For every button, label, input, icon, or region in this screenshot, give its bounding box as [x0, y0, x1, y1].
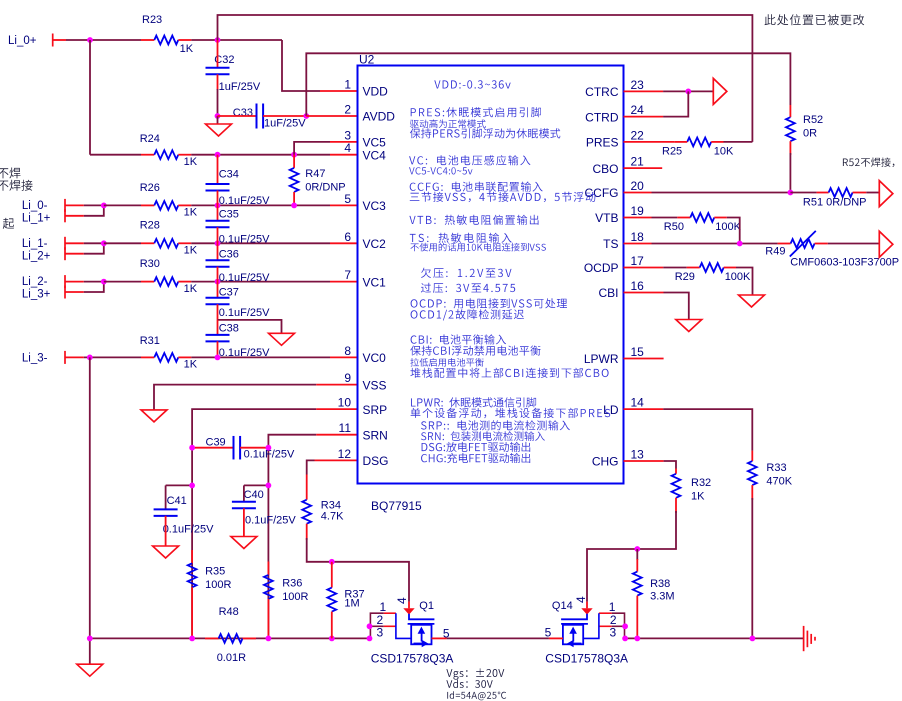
pin 19 VTB stub: [624, 217, 652, 219]
junction TS/R50: [737, 241, 743, 247]
capacitor C32 bottom lead lower: [217, 89, 219, 116]
resistor R50: [690, 213, 714, 222]
svg-text:Q14: Q14: [552, 600, 573, 612]
junction Li_1-/Li_2+: [101, 240, 107, 246]
svg-text:CBO: CBO: [592, 162, 618, 176]
svg-text:15: 15: [631, 345, 645, 359]
resistor R50 right lead: [714, 217, 727, 219]
svg-text:BQ77915: BQ77915: [371, 499, 422, 513]
pin 17 OCDP stub: [624, 267, 664, 269]
resistor R26 right lead: [178, 204, 191, 206]
svg-text:1uF/25V: 1uF/25V: [264, 118, 306, 130]
wire R49 to arrow: [828, 243, 880, 245]
svg-text:23: 23: [631, 78, 645, 92]
svg-text:CMF0603-103F3700P: CMF0603-103F3700P: [790, 257, 899, 269]
wire bottom rail right: [625, 637, 804, 639]
resistor R31: [154, 353, 178, 362]
transistor Q1 drain arrow pin 4: [403, 608, 414, 614]
svg-text:3: 3: [377, 626, 384, 640]
svg-text:2: 2: [344, 103, 351, 117]
pin 18 TS stub: [624, 243, 652, 245]
junction Li_0-/Li_1+: [101, 203, 107, 209]
arrow CCFG output: [879, 181, 893, 207]
resistor R36: [264, 575, 273, 599]
svg-text:R49: R49: [765, 246, 785, 258]
note Q Id rating: [447, 691, 506, 700]
svg-text:19: 19: [631, 204, 645, 218]
junction Li_2-/Li_3+: [101, 279, 107, 285]
junction C39 left: [189, 445, 195, 451]
resistor R48 right lead: [243, 637, 256, 639]
terminal Li_0- lead: [65, 204, 84, 206]
wire R38 top link: [636, 549, 638, 560]
svg-text:0.1uF/25V: 0.1uF/25V: [244, 449, 295, 461]
svg-text:Li_1+: Li_1+: [22, 212, 51, 224]
pin 20 CCFG stub: [624, 192, 652, 194]
IC text CCFG line2: [410, 192, 596, 202]
wire CCFG node to R51: [790, 192, 816, 194]
IC text CBI line1: [411, 334, 506, 344]
svg-text:U2: U2: [359, 53, 375, 67]
junction C39 right: [266, 445, 272, 451]
svg-text:R31: R31: [140, 335, 160, 347]
resistor R24 left lead: [141, 154, 154, 156]
pin 4 VC4 stub: [330, 154, 358, 156]
svg-text:6: 6: [344, 230, 351, 244]
svg-text:100R: 100R: [205, 579, 231, 591]
ground under C41: [153, 546, 179, 558]
wire Li_0+ rail to R23: [66, 39, 141, 41]
wire R31 to pin VC0: [191, 356, 330, 358]
svg-text:13: 13: [631, 448, 645, 462]
resistor R48: [219, 634, 243, 643]
svg-text:5: 5: [443, 627, 450, 641]
svg-text:VC0: VC0: [363, 351, 387, 365]
resistor R28 left lead: [141, 242, 154, 244]
pin 11 SRN stub: [316, 434, 357, 436]
wire VDD node to pin VDD: [282, 40, 320, 91]
capacitor C41: [154, 509, 178, 516]
IC text PRES line2: [410, 119, 486, 128]
wire CBI to ground: [664, 293, 689, 320]
wire C33 ground drop: [217, 116, 219, 124]
svg-text:C34: C34: [219, 169, 239, 181]
pin 8 VC0 stub: [330, 356, 358, 358]
transistor Q1 gate bracket: [409, 614, 434, 620]
svg-text:SRP: SRP: [363, 403, 388, 417]
capacitor C36: [206, 260, 230, 267]
junction Q1 pin3 rail: [367, 636, 373, 642]
junction VDD node at C32: [215, 37, 221, 43]
wire R33 to bottom rail: [751, 498, 753, 638]
svg-text:Li_1-: Li_1-: [22, 238, 48, 250]
wire SRN from pin 11: [268, 435, 316, 639]
svg-text:1K: 1K: [184, 359, 198, 371]
resistor R47: [290, 168, 299, 192]
svg-text:10: 10: [338, 396, 352, 410]
capacitor C40: [232, 502, 256, 509]
svg-text:11: 11: [339, 421, 352, 435]
capacitor C34 bottom lead: [217, 191, 219, 206]
IC text OCDP line2: [411, 309, 524, 320]
svg-text:DSG: DSG: [363, 454, 389, 468]
resistor R51 right lead: [853, 192, 867, 194]
terminal Li_3+ tick: [64, 286, 66, 299]
resistor R33: [748, 461, 757, 485]
svg-text:CSD17578Q3A: CSD17578Q3A: [545, 652, 628, 666]
transistor Q14 drain red lead: [586, 602, 588, 609]
capacitor C36 top lead: [217, 243, 219, 260]
svg-text:1K: 1K: [180, 43, 194, 55]
resistor R49 thermistor slash: [790, 231, 816, 257]
junction CTRC/CTRD: [685, 89, 691, 95]
resistor R30 right lead: [178, 281, 191, 283]
wire CHG to R32: [664, 461, 676, 469]
svg-text:C36: C36: [219, 248, 239, 260]
svg-text:12: 12: [338, 447, 352, 461]
svg-text:5: 5: [344, 192, 351, 206]
wire DSG from pin 12: [307, 460, 315, 474]
wire VC5 branch: [294, 142, 330, 155]
resistor R52: [786, 117, 795, 141]
wire R52 to CCFG node: [789, 153, 791, 193]
capacitor C35: [206, 221, 230, 228]
svg-text:CSD17578Q3A: CSD17578Q3A: [371, 652, 454, 666]
resistor R34 bottom lead: [306, 524, 308, 540]
svg-text:1K: 1K: [184, 283, 198, 295]
junction R47 top node: [291, 152, 297, 158]
terminal Li_3- tick: [64, 351, 66, 364]
svg-text:R25: R25: [662, 146, 682, 158]
wire SRP from pin 10: [192, 409, 316, 638]
wire C37/C38 node to ground: [218, 320, 282, 333]
resistor R34: [302, 500, 311, 524]
svg-text:CTRC: CTRC: [585, 85, 619, 99]
wire VSS from pin 9: [154, 385, 316, 410]
ground bottom left: [77, 664, 103, 676]
junction Q14 pin3 rail: [622, 636, 628, 642]
capacitor C39 right lead: [240, 447, 268, 449]
transistor Q14 source arrow: [567, 640, 582, 647]
resistor R32 top lead: [675, 469, 677, 474]
svg-text:VC1: VC1: [363, 275, 387, 289]
IC text SRN line: [421, 431, 545, 441]
resistor R24: [154, 150, 178, 159]
svg-text:0.1uF/25V: 0.1uF/25V: [219, 272, 270, 284]
svg-text:0.01R: 0.01R: [217, 652, 246, 664]
svg-text:C40: C40: [244, 489, 264, 501]
wire Li_3- to junction: [84, 356, 141, 358]
svg-text:VC3: VC3: [363, 199, 387, 213]
svg-text:10K: 10K: [714, 146, 734, 158]
wire bottom rail middle: [447, 637, 549, 639]
svg-text:VC4: VC4: [363, 148, 387, 162]
resistor R28: [154, 239, 178, 248]
svg-text:CTRD: CTRD: [585, 110, 619, 124]
junction rail R37: [329, 636, 335, 642]
transistor Q1 pins 1-3 box: [370, 613, 411, 638]
pin 9 VSS stub: [316, 384, 357, 386]
wire LD to R33: [663, 409, 752, 451]
resistor R36 top lead: [267, 562, 269, 575]
ground under C33: [206, 124, 232, 136]
transistor Q14: [0, 0, 1, 1]
wire CTRD riser: [663, 91, 688, 116]
resistor R48 left lead: [205, 637, 219, 639]
junction cap node on R28 row: [215, 240, 221, 246]
ground after R29: [739, 295, 765, 307]
IC text CBI line4: [410, 368, 608, 378]
terminal Li_2+ tick: [64, 247, 66, 260]
svg-text:1: 1: [609, 600, 616, 614]
note Q Vds rating: [446, 680, 492, 688]
svg-text:21: 21: [631, 155, 645, 169]
wire VDD node up to top rail: [218, 15, 753, 142]
wire R51 to arrow: [866, 192, 879, 194]
IC text SRP line: [421, 420, 570, 430]
transistor Q14 drain arrow pin 4: [581, 608, 592, 614]
svg-text:100R: 100R: [282, 591, 308, 603]
IC text DSG line: [422, 442, 531, 452]
junction C41 link: [189, 483, 195, 489]
pin 16 CBI stub: [624, 292, 664, 294]
wire R28 to IC pin: [191, 242, 330, 244]
svg-text:C35: C35: [219, 208, 239, 220]
junction Q1 pin2 rail: [367, 623, 373, 629]
svg-text:VC2: VC2: [363, 237, 387, 251]
wire R25 to top rail: [724, 141, 753, 143]
wire PRES to R25: [652, 141, 675, 143]
junction R37 top: [329, 559, 335, 565]
transistor Q14 body box: [563, 625, 583, 645]
terminal Li_2- tick: [64, 275, 66, 288]
svg-text:R50: R50: [664, 221, 684, 233]
terminal Li_2+ lead: [65, 253, 84, 255]
resistor R25: [687, 138, 711, 147]
resistor R38 bottom lead: [636, 596, 638, 639]
svg-text:SRN: SRN: [363, 428, 388, 442]
ground after CBI: [676, 320, 702, 332]
svg-text:R52: R52: [803, 114, 823, 126]
junction rail R36: [266, 636, 272, 642]
resistor R33 top lead: [751, 451, 753, 462]
capacitor C39: [234, 436, 241, 460]
resistor R49 left lead: [778, 243, 791, 245]
svg-text:CHG: CHG: [592, 455, 619, 469]
svg-text:1: 1: [380, 600, 387, 614]
wire R23 to VDD node: [191, 39, 282, 41]
svg-text:0.1uF/25V: 0.1uF/25V: [245, 515, 296, 527]
transistor Q14 gate bracket: [561, 614, 587, 620]
junction C38 bottom node: [215, 355, 221, 361]
junction cap node on R30 row: [215, 279, 221, 285]
svg-text:R47: R47: [305, 168, 325, 180]
svg-text:C41: C41: [167, 495, 187, 507]
resistor R35 top lead: [191, 550, 193, 563]
capacitor C34 top lead: [217, 155, 219, 184]
wire OCDP to R29: [663, 267, 687, 269]
svg-text:3.3M: 3.3M: [650, 591, 674, 603]
note left bu-han-jie: [0, 180, 33, 191]
wire R24 row left: [90, 154, 141, 156]
terminal Li_0- tick: [64, 199, 66, 212]
wire CTRC to arrow: [663, 90, 713, 92]
svg-text:Q1: Q1: [419, 600, 434, 612]
terminal Li_0+ tick: [52, 34, 54, 47]
capacitor C37 bottom lead: [217, 304, 219, 320]
resistor R29 left lead: [687, 267, 700, 269]
IC text CCFG line1: [410, 182, 543, 192]
svg-text:OCDP: OCDP: [584, 261, 619, 275]
IC text CBI line3: [410, 358, 483, 367]
svg-text:0.1uF/25V: 0.1uF/25V: [219, 307, 270, 319]
svg-text:1K: 1K: [184, 207, 198, 219]
wire VTB to R50: [652, 217, 678, 219]
resistor R35 bottom lead: [191, 587, 193, 638]
resistor R47 top lead: [293, 155, 295, 168]
IC text TS line1: [410, 233, 512, 243]
wire Li_1+ riser: [84, 205, 104, 215]
resistor R30: [154, 277, 178, 286]
svg-text:Li_3+: Li_3+: [22, 289, 51, 301]
svg-text:470K: 470K: [766, 476, 792, 488]
IC text VC line1: [409, 155, 530, 165]
svg-text:0R: 0R: [803, 128, 817, 140]
resistor R33 bottom lead: [751, 485, 753, 500]
transistor Q1: [0, 0, 1, 1]
svg-text:R30: R30: [140, 258, 160, 270]
capacitor C33 left lead: [218, 115, 257, 117]
terminal Li_1+ lead: [65, 215, 84, 217]
wire Li_3+ riser: [84, 282, 104, 292]
capacitor C39 left lead: [192, 447, 233, 449]
resistor R50 left lead: [677, 217, 690, 219]
IC text CHG line: [421, 453, 530, 463]
svg-text:4: 4: [395, 597, 409, 604]
svg-text:16: 16: [631, 279, 645, 293]
wire bottom rail left: [90, 637, 371, 639]
terminal Li_3+ lead: [65, 291, 84, 293]
junction AVDD node: [303, 113, 309, 119]
resistor R29 right lead: [724, 267, 736, 269]
svg-text:1: 1: [344, 78, 351, 92]
svg-text:22: 22: [631, 128, 645, 142]
wire Li_2- to junction: [84, 281, 104, 283]
svg-text:100K: 100K: [715, 221, 741, 233]
power ground earth symbol right: [804, 626, 815, 651]
wire R24 to VC4 pin: [191, 154, 330, 156]
capacitor C33: [257, 104, 264, 129]
arrow CTRC output: [713, 78, 727, 104]
resistor R34 top lead: [306, 475, 308, 500]
resistor R49 thermistor: [791, 239, 815, 248]
note top right: [765, 14, 865, 25]
terminal Li_0+ lead: [53, 39, 66, 41]
pin 22 PRES stub: [624, 141, 652, 143]
svg-text:VSS: VSS: [363, 378, 387, 392]
pin 3 VC5 stub: [330, 141, 358, 143]
svg-text:1uF/25V: 1uF/25V: [219, 81, 261, 93]
terminal Li_1+ tick: [64, 209, 66, 222]
svg-text:VDD: VDD: [363, 85, 389, 99]
pin 14 LD stub: [624, 408, 664, 410]
transistor Q1 source arrow: [414, 640, 429, 647]
svg-text:3: 3: [610, 626, 617, 640]
svg-text:0.1uF/25V: 0.1uF/25V: [219, 234, 270, 246]
svg-text:4: 4: [344, 141, 351, 155]
IC text VC line2: [409, 167, 472, 174]
svg-text:Li_2+: Li_2+: [22, 250, 51, 262]
capacitor C36 bottom lead: [217, 267, 219, 282]
capacitor C37 top lead: [217, 282, 219, 298]
pin 2 AVDD stub: [306, 115, 357, 117]
ground at C37/C38 node: [269, 333, 295, 345]
wire Li_1- to junction: [84, 242, 104, 244]
svg-text:9: 9: [344, 371, 351, 385]
wire R29 to ground: [736, 268, 753, 296]
pin 12 DSG stub: [315, 459, 358, 461]
wire R30 to IC pin: [191, 281, 330, 283]
IC text PRES line3: [410, 128, 560, 138]
note left bu-han: [0, 168, 20, 179]
wire R26 to IC pin: [191, 204, 330, 206]
IC text VDD rating: [434, 80, 510, 88]
junction rail R35: [189, 636, 195, 642]
capacitor C40 bottom lead: [243, 508, 245, 536]
capacitor C37: [206, 298, 230, 305]
svg-text:C38: C38: [219, 323, 239, 335]
ground VSS: [141, 410, 167, 422]
wire Li_2+ riser: [84, 243, 104, 253]
resistor R23: [154, 36, 178, 45]
op-amp U2 BQ77915 IC body: [358, 66, 624, 484]
svg-text:R29: R29: [675, 271, 695, 283]
resistor R52 bottom lead: [789, 141, 791, 155]
capacitor C32 bottom lead: [217, 74, 219, 90]
svg-text:8: 8: [344, 344, 351, 358]
capacitor C35 bottom lead: [217, 227, 219, 243]
svg-text:0.1uF/25V: 0.1uF/25V: [163, 524, 214, 536]
svg-text:1K: 1K: [184, 245, 198, 257]
svg-text:R51 0R/DNP: R51 0R/DNP: [803, 197, 867, 209]
resistor R36 bottom lead: [267, 599, 269, 639]
IC text PRES line1: [411, 107, 541, 117]
resistor R49 right lead: [815, 243, 828, 245]
transistor Q1 body box: [411, 625, 431, 645]
junction C34 top node: [215, 152, 221, 158]
capacitor C38 top lead: [217, 320, 219, 335]
resistor R25 left lead: [674, 141, 687, 143]
pin 6 VC2 stub: [330, 242, 358, 244]
pin 10 SRP stub: [316, 408, 357, 410]
svg-text:R24: R24: [140, 133, 160, 145]
svg-text:0.1uF/25V: 0.1uF/25V: [219, 195, 270, 207]
junction Li_3- node: [87, 355, 93, 361]
wire junction to R26: [104, 204, 141, 206]
resistor R38 top lead: [636, 559, 638, 572]
svg-text:18: 18: [631, 230, 645, 244]
resistor R32 bottom lead: [675, 498, 677, 513]
wire R32 to Q14 gate node: [587, 511, 676, 602]
svg-text:LPWR: LPWR: [584, 352, 619, 366]
wire Li_0+ down to R24 row: [89, 40, 91, 155]
svg-text:CBI: CBI: [598, 286, 618, 300]
resistor R29: [700, 263, 724, 272]
arrow TS output: [879, 231, 893, 257]
svg-text:R32: R32: [691, 477, 711, 489]
junction rail Li_3-: [87, 636, 93, 642]
junction C40 link: [266, 483, 272, 489]
